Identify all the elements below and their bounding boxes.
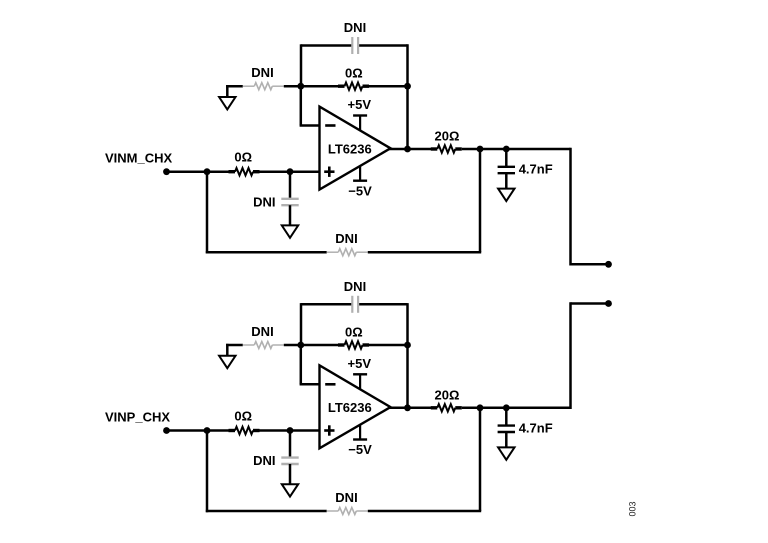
wire: input rail right into op-amp + (A) [260, 170, 320, 173]
svg-text:DNI: DNI [335, 231, 357, 246]
svg-text:LT6236: LT6236 [328, 400, 372, 415]
wire: output A terminal segment [571, 263, 609, 266]
power +5V pin (A) [359, 116, 361, 131]
node: input junction to feedback return (A) [204, 168, 211, 175]
svg-text:0Ω: 0Ω [345, 66, 363, 81]
node: feedback return junction (B) [477, 404, 484, 411]
wire: loop right vertical down to output (A) [406, 44, 409, 149]
svg-text:DNI: DNI [344, 279, 366, 294]
node: input terminal VINP_CHX [163, 427, 170, 434]
wire: feedback return bottom left segment (A) [206, 251, 327, 254]
wire: inverting input drop (A) [300, 86, 303, 125]
wire: op-amp output (B) [389, 407, 431, 410]
resistor 0 ohm (series input) A [235, 168, 253, 175]
wire: feedback return bottom right segment (A) [368, 251, 481, 254]
wire: ground corner vertical (B) [226, 344, 229, 356]
wire: node to 0ohm feedback resistor (B) [301, 344, 338, 347]
wire: + input to DNI cap (A) [289, 172, 292, 199]
wire: 0ohm feedback resistor to loop right (B) [369, 344, 408, 347]
node: feedback return junction (A) [477, 146, 484, 153]
wire: feedback return right vertical (A) [479, 149, 482, 252]
wire: ground stub to DNI resistor (A) [226, 85, 243, 88]
power -5V pin (B) [359, 424, 361, 439]
resistor 0 ohm (feedback) A [345, 83, 363, 90]
wire: feedback return bottom left segment (B) [206, 510, 327, 513]
capacitor DNI (feedback, do-not-install) B [351, 296, 353, 313]
op-amp non-inverting input marker (B) [324, 429, 334, 432]
wire: ground corner vertical (A) [226, 85, 229, 97]
wire: inverting input drop (B) [300, 345, 303, 384]
wire: 4.7nF cap to ground (A) [505, 173, 508, 188]
svg-text:DNI: DNI [253, 453, 275, 468]
svg-text:DNI: DNI [251, 65, 273, 80]
node: output terminal B [605, 300, 612, 307]
wire: input rail right into op-amp + (B) [260, 429, 320, 432]
wire: output B terminal segment [571, 302, 609, 305]
svg-text:DNI: DNI [344, 20, 366, 35]
wire: output A jog vertical [569, 148, 572, 266]
wire: feedback return left vertical (B) [206, 431, 209, 513]
wire: DNI cap to ground (B) [289, 464, 292, 484]
node: non-inverting input junction (B) [287, 427, 294, 434]
svg-text:0Ω: 0Ω [234, 408, 252, 423]
svg-text:−5V: −5V [348, 183, 372, 198]
ground (inverting DNI network) A [219, 97, 235, 109]
svg-text:−5V: −5V [348, 442, 372, 457]
wire: DNI cap to ground (A) [289, 205, 292, 225]
power +5V pin (B) [359, 374, 361, 389]
node: output filter junction (B) [503, 404, 510, 411]
node: input junction to feedback return (B) [204, 427, 211, 434]
wire: feedback return right vertical (B) [479, 408, 482, 511]
svg-text:003: 003 [627, 501, 637, 516]
svg-text:+5V: +5V [348, 356, 372, 371]
resistor 20 ohm (series output) A [437, 145, 455, 152]
svg-text:4.7nF: 4.7nF [519, 162, 553, 177]
svg-text:DNI: DNI [251, 324, 273, 339]
wire: loop left vertical (B) [300, 303, 303, 345]
wire: output to 4.7nF cap (A) [505, 149, 508, 167]
wire: output to 4.7nF cap (B) [505, 408, 508, 426]
node: output junction (B) [404, 404, 411, 411]
wire: + input to DNI cap (B) [289, 431, 292, 458]
wire: feedback loop top, right segment (B) [358, 303, 408, 306]
wire: output B jog vertical [569, 302, 572, 409]
ground (input DNI cap) A [282, 225, 298, 237]
svg-text:VINP_CHX: VINP_CHX [105, 410, 170, 425]
node: loop left junction (B) [297, 342, 304, 349]
wire: DNI resistor to node (B) [284, 344, 301, 347]
op-amp UB LT6236 [320, 365, 391, 448]
resistor 20 ohm (series output) B [437, 404, 455, 411]
resistor DNI (to ground, do-not-install) B [243, 344, 255, 346]
wire: feedback loop top, left segment (A) [301, 44, 353, 47]
wire: output rail after 20ohm (B) [462, 407, 571, 410]
wire: feedback return bottom right segment (B) [368, 510, 481, 513]
wire: loop left vertical (A) [300, 44, 303, 86]
wire: op-amp output (A) [389, 148, 431, 151]
node: input terminal VINM_CHX [163, 168, 170, 175]
wire: 0ohm feedback resistor to loop right (A) [369, 85, 408, 88]
capacitor 4.7nF (output filter) A [498, 166, 515, 168]
svg-text:DNI: DNI [335, 490, 357, 505]
ground (output filter cap) B [498, 447, 514, 459]
wire: DNI resistor to node (A) [284, 85, 301, 88]
wire: loop right vertical down to output (B) [406, 303, 409, 408]
svg-text:VINM_CHX: VINM_CHX [105, 151, 173, 166]
capacitor 4.7nF (output filter) B [498, 424, 515, 426]
resistor DNI (feedback return, do-not-install) B [327, 510, 339, 512]
wire: feedback return left vertical (A) [206, 172, 209, 254]
wire: node to 0ohm feedback resistor (A) [301, 85, 338, 88]
resistor DNI (feedback return, do-not-install) A [327, 251, 339, 253]
wire: 4.7nF cap to ground (B) [505, 432, 508, 447]
op-amp UA LT6236 [320, 107, 391, 190]
op-amp non-inverting input marker (A) [324, 170, 334, 173]
node: loop left junction (A) [297, 83, 304, 90]
wire: ground stub to DNI resistor (B) [226, 344, 243, 347]
capacitor DNI (input filter, do-not-install) A [281, 198, 298, 200]
wire: feedback loop top, left segment (B) [301, 303, 353, 306]
svg-text:0Ω: 0Ω [234, 150, 252, 165]
power -5V pin (A) [359, 166, 361, 181]
resistor DNI (to ground, do-not-install) A [243, 85, 255, 87]
node: non-inverting input junction (A) [287, 168, 294, 175]
node: output junction (A) [404, 146, 411, 153]
node: loop right junction (A) [404, 83, 411, 90]
ground (inverting DNI network) B [219, 356, 235, 368]
svg-text:0Ω: 0Ω [345, 325, 363, 340]
resistor 0 ohm (series input) B [235, 427, 253, 434]
wire: inverting input into op-amp (A) [300, 124, 320, 127]
ground (output filter cap) A [498, 189, 514, 201]
svg-text:DNI: DNI [253, 194, 275, 209]
svg-text:20Ω: 20Ω [435, 129, 460, 144]
resistor 0 ohm (feedback) B [345, 341, 363, 348]
op-amp inverting input marker (B) [325, 383, 335, 386]
wire: inverting input into op-amp (B) [300, 383, 320, 386]
op-amp inverting input marker (A) [325, 124, 335, 127]
wire: feedback loop top, right segment (A) [358, 44, 408, 47]
node: output filter junction (A) [503, 146, 510, 153]
wire: output rail after 20ohm (A) [462, 148, 571, 151]
node: output terminal A [605, 261, 612, 268]
wire: input rail left (A) [167, 170, 229, 173]
ground (input DNI cap) B [282, 484, 298, 496]
capacitor DNI (input filter, do-not-install) B [281, 456, 298, 458]
svg-text:20Ω: 20Ω [435, 388, 460, 403]
wire: input rail left (B) [167, 429, 229, 432]
node: loop right junction (B) [404, 342, 411, 349]
svg-text:LT6236: LT6236 [328, 141, 372, 156]
svg-text:+5V: +5V [348, 97, 372, 112]
capacitor DNI (feedback, do-not-install) A [351, 37, 353, 54]
svg-text:4.7nF: 4.7nF [519, 421, 553, 436]
